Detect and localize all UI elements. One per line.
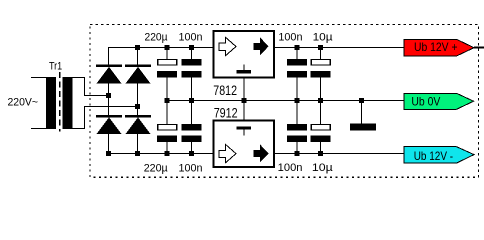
junction top rail C1 [165,45,170,50]
junction bottom rail C4 [189,151,194,156]
wire unregulated + rail [109,48,213,65]
svg-text:100n: 100n [278,162,303,174]
wire secondary upper tap to node A [73,78,109,96]
svg-text:Ub 12V -: Ub 12V - [414,149,453,163]
wire primary top stub [31,77,46,79]
diode D2 [125,65,151,84]
diode D3 [96,115,122,134]
wire secondary lower tap to node B [73,107,138,129]
diode D1 [96,65,122,84]
U2 ground pin wire [243,101,245,121]
svg-text:100n: 100n [179,163,203,175]
node Ub 12V - output flag [404,147,474,163]
capacitor C7 100n [287,101,307,154]
wire 0V rail [167,100,404,102]
capacitor C6 10u [311,48,331,101]
junction 0V C2/C4 [189,98,194,103]
U2 internal ground [236,127,251,136]
svg-text:Ub 0V: Ub 0V [411,95,440,109]
node B junction [135,104,140,109]
U1 ground pin wire [243,79,245,101]
capacitor C5 100n [287,48,307,101]
junction 0V ground [359,98,364,103]
svg-text:10µ: 10µ [313,32,334,44]
wire unregulated - rail [109,153,213,155]
U1 output arrow [253,37,268,55]
svg-text:220µ: 220µ [145,32,169,44]
transformer Tr1 core [59,72,61,132]
wire bridge column 1 lower [108,134,110,154]
node A junction [106,93,111,98]
junction bottom rail col1 [106,151,111,156]
dashed frame border [90,24,478,177]
junction top rail C2 [189,45,194,50]
U1 internal ground [236,65,251,74]
voltage regulator U2 7912 box [214,121,275,168]
capacitor C2 100n [182,48,202,101]
junction 0V C1/C3 [165,98,170,103]
wire -12V output rail [275,153,405,155]
node Ub 12V + output flag [404,39,474,56]
U1 input arrow [219,37,236,55]
svg-text:220µ: 220µ [144,163,169,175]
transformer Tr1 secondary winding [63,77,73,129]
junction top rail col2 [135,45,140,50]
wire primary bottom stub [31,128,46,130]
node Ub 0V output flag [404,93,474,109]
svg-text:7812: 7812 [213,83,237,98]
U2 output arrow [253,144,268,162]
wire bridge column 2 [137,48,139,65]
svg-text:7912: 7912 [214,106,238,121]
junction 0V regulators [242,98,247,103]
voltage regulator U1 7812 box [214,31,275,78]
svg-text:Tr1: Tr1 [49,60,62,72]
junction -12V C8 [318,151,323,156]
wire +12V exit [474,47,484,49]
junction bottom rail col2 [135,151,140,156]
svg-text:220V~: 220V~ [8,97,39,109]
capacitor C4 100n [182,101,202,154]
capacitor C8 10u [311,101,331,154]
capacitor C1 220u [157,48,177,101]
wire bridge column 1 [108,84,110,116]
svg-text:100n: 100n [179,32,203,44]
wire +12V output rail [275,47,405,49]
ground [350,101,376,131]
diode D4 [125,115,151,134]
junction -12V C7 [295,151,300,156]
wire bridge column 2 mid [137,84,139,116]
junction 0V C6/C8 [318,98,323,103]
junction 0V C5/C7 [295,98,300,103]
junction +12V C6 [318,45,323,50]
wire bridge column 2 lower [137,134,139,154]
svg-text:100n: 100n [278,32,302,44]
transformer Tr1 primary winding [46,77,56,129]
junction +12V C5 [295,45,300,50]
junction bottom rail C3 [165,151,170,156]
svg-text:10µ: 10µ [312,162,334,174]
U2 input arrow [219,144,236,162]
capacitor C3 220u [157,101,177,154]
svg-text:Ub 12V +: Ub 12V + [414,40,458,54]
